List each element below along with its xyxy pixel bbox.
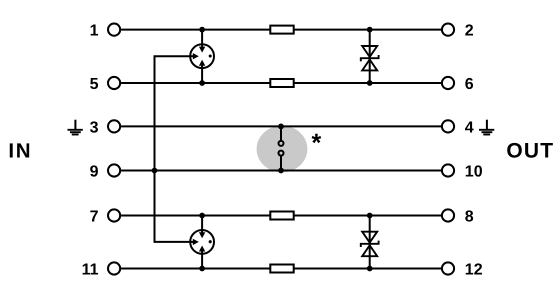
gas discharge tube F1: [190, 30, 214, 83]
svg-text:*: *: [312, 129, 322, 157]
junction row1-tvs: [367, 27, 373, 33]
junction row11-tvs: [367, 266, 373, 272]
junction row9-groundtap: [152, 168, 158, 174]
svg-text:7: 7: [90, 209, 99, 226]
wire row 5-6: [121, 82, 272, 84]
svg-text:5: 5: [90, 76, 99, 93]
svg-text:2: 2: [465, 23, 474, 40]
ground right: [479, 120, 494, 135]
svg-text:11: 11: [82, 262, 99, 279]
wire row 11-12: [121, 268, 272, 270]
suppressor diode V1: [361, 30, 379, 83]
terminal 7: [108, 209, 120, 221]
terminal 4: [442, 120, 454, 132]
junction row7-gdt: [199, 213, 205, 219]
terminal 1: [108, 24, 120, 36]
wire ground tap: [155, 56, 197, 242]
terminal 6: [442, 77, 454, 89]
svg-text:8: 8: [465, 209, 474, 226]
gas discharge tube F2: [190, 216, 214, 269]
junction row11-gdt: [199, 266, 205, 272]
svg-text:10: 10: [465, 164, 483, 181]
terminal 9: [108, 164, 120, 176]
junction row5-tvs: [367, 80, 373, 86]
junction row7-tvs: [367, 213, 373, 219]
svg-text:3: 3: [90, 120, 99, 137]
svg-text:6: 6: [465, 76, 474, 93]
terminal 5: [108, 77, 120, 89]
terminal 2: [442, 24, 454, 36]
terminal 12: [442, 262, 454, 274]
suppressor diode V2: [361, 216, 379, 269]
svg-text:9: 9: [90, 164, 99, 181]
resistor R2: [270, 79, 293, 87]
node shaded option circle: [257, 126, 308, 173]
junction row5-gdt: [199, 80, 205, 86]
resistor R4: [270, 265, 293, 273]
terminal 8: [442, 209, 454, 221]
resistor R3: [270, 212, 293, 220]
terminal 10: [442, 164, 454, 176]
ground left: [68, 120, 83, 135]
resistor R1: [270, 26, 293, 34]
junction row3-sparkgap: [278, 124, 284, 130]
isolating spark gap (optional): [279, 126, 284, 170]
wire row 3-4: [121, 125, 441, 127]
svg-text:4: 4: [465, 120, 474, 137]
terminal 11: [108, 262, 120, 274]
terminal 3: [108, 120, 120, 132]
junction row1-gdt: [199, 27, 205, 33]
wire row 7-8: [121, 215, 272, 217]
svg-text:OUT: OUT: [506, 139, 554, 162]
svg-text:IN: IN: [8, 139, 32, 162]
svg-text:12: 12: [465, 262, 483, 279]
svg-text:1: 1: [90, 23, 99, 40]
junction row9-sparkgap: [278, 168, 284, 174]
wire row 1-2: [121, 29, 272, 31]
wire row 9-10: [121, 170, 441, 172]
